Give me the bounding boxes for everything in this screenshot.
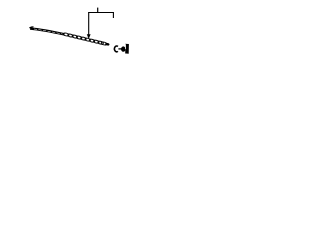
chain link 2 <box>68 34 74 38</box>
chain link 3 <box>72 35 78 39</box>
callout stub <box>97 8 99 13</box>
clip body <box>125 44 129 54</box>
chain link 10 <box>101 42 107 46</box>
chain link 5 <box>80 37 86 41</box>
rod end link (solid) <box>105 42 110 45</box>
chain link 4 <box>76 36 82 40</box>
arrowhead <box>87 34 91 39</box>
clip C-ring <box>114 46 117 52</box>
chain link 8 <box>93 40 99 44</box>
bracket left leg (leader line) <box>88 12 90 35</box>
bracket right leg <box>112 12 114 18</box>
leader bracket horizontal line <box>88 12 114 14</box>
clip connector <box>118 48 121 50</box>
clip flange (left face) <box>121 46 126 51</box>
chain link 6 <box>85 38 91 42</box>
chain link 9 <box>98 41 104 45</box>
chain link 1 <box>63 33 69 37</box>
rod solid coil section <box>30 29 64 35</box>
rod solid section core highlight <box>34 29 63 34</box>
chain link 7 <box>89 39 95 43</box>
clip body slit (highlight) <box>125 44 127 49</box>
rod left hook tip <box>29 27 33 28</box>
